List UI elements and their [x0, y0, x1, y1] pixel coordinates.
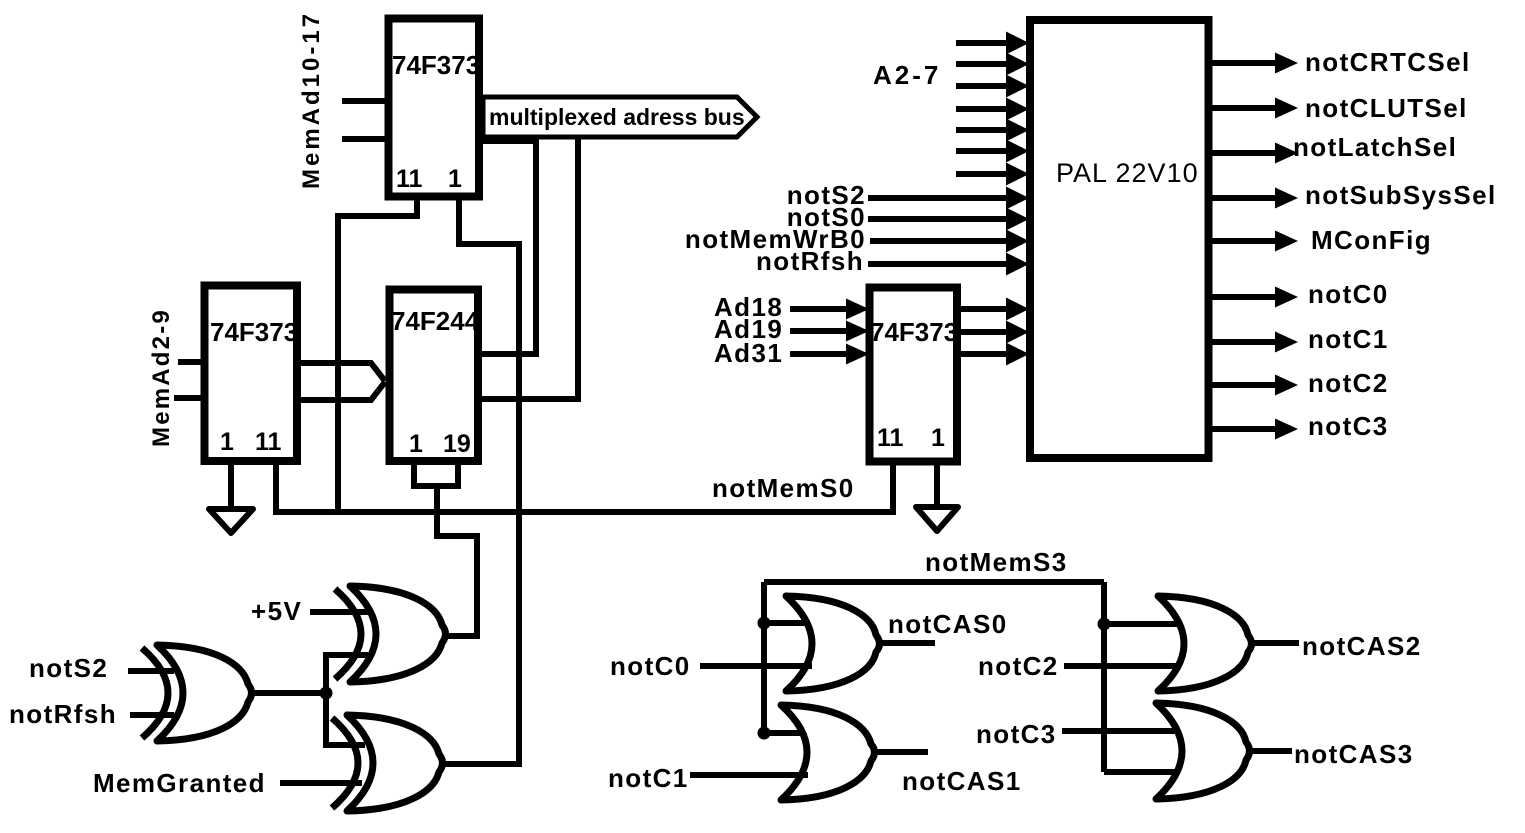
wire G5 top input stub	[764, 730, 808, 736]
wire notMemS0 net: U2 pin11 to U3 pin11	[276, 464, 893, 512]
wire notRfsh to PAL	[868, 253, 1029, 276]
svg-text:1: 1	[409, 430, 423, 458]
svg-text:1: 1	[448, 165, 462, 193]
junction dot J3	[758, 727, 771, 740]
wire PAL output notCLUTSel	[1208, 98, 1298, 119]
wire notRfsh input	[130, 712, 174, 718]
wire PAL output notLatchSel	[1208, 143, 1298, 164]
wire bus arrow U2 to U4	[301, 363, 385, 400]
wire U1 input stubs	[342, 101, 390, 139]
wire PAL output notC3	[1208, 419, 1298, 440]
latch U2 74F373 (MemAd2-9)	[205, 286, 299, 462]
svg-text:notC2: notC2	[978, 651, 1059, 681]
svg-text:PAL 22V10: PAL 22V10	[1056, 158, 1199, 188]
wire W3: U1 right edge to U4 output (x536 vertical)	[480, 141, 536, 354]
wire PAL output notC0	[1208, 287, 1298, 308]
wire U4 pins 1/19 strap	[414, 464, 458, 486]
or gate G4 (notCAS0)	[786, 596, 880, 691]
wire PAL output notC1	[1208, 332, 1298, 353]
svg-text:notC3: notC3	[1308, 411, 1389, 441]
wire Ad31 into U3	[790, 344, 869, 365]
latch U3 74F373 (Ad18/19/31)	[870, 288, 959, 462]
wire G6 top input stub	[1104, 621, 1184, 627]
svg-text:notCLUTSel: notCLUTSel	[1305, 93, 1468, 123]
wire notC3 input	[1062, 728, 1184, 734]
or gate G5 (notCAS1)	[781, 705, 875, 800]
svg-text:notC0: notC0	[1308, 279, 1389, 309]
wire PAL output notSubSysSel	[1208, 188, 1298, 209]
wire +5V input	[310, 609, 368, 615]
svg-text:notMemS0: notMemS0	[712, 473, 855, 503]
wire G7 output	[1251, 748, 1292, 754]
svg-text:notRfsh: notRfsh	[9, 699, 117, 729]
wire G5 output	[876, 749, 928, 755]
svg-text:Ad31: Ad31	[714, 338, 783, 368]
svg-text:notC1: notC1	[608, 763, 689, 793]
wire G7 bottom input stub	[1104, 769, 1182, 775]
svg-text:MemGranted: MemGranted	[93, 768, 266, 798]
wire notS0 to PAL	[868, 208, 1029, 231]
svg-text:1: 1	[220, 428, 234, 456]
PAL U5 22V10	[1030, 20, 1209, 458]
wire W4: banner bottom to U4 output (x578 vertical)	[481, 135, 578, 399]
or gate G6 (notCAS2)	[1158, 596, 1252, 691]
wire notS2 input	[128, 668, 174, 674]
svg-text:74F373: 74F373	[870, 317, 958, 347]
svg-text:notC0: notC0	[610, 651, 691, 681]
svg-text:notLatchSel: notLatchSel	[1293, 132, 1457, 162]
wire Ad18 into U3	[790, 299, 869, 320]
wire notMemWrB0 to PAL	[870, 230, 1029, 253]
wire junction vertical to G2/G3 inputs	[326, 655, 368, 745]
xor gate G1 (notS2/notRfsh)	[142, 645, 252, 741]
latch U1 74F373 (MemAd10-17)	[389, 19, 481, 197]
svg-text:A2-7: A2-7	[873, 60, 941, 90]
wire Ad19 into U3	[790, 321, 869, 342]
wire U4 strap down to gate G2 output	[437, 486, 477, 636]
or gate G7 (notCAS3)	[1156, 703, 1250, 799]
wire G4 output	[881, 640, 935, 646]
svg-text:notCAS3: notCAS3	[1294, 739, 1414, 769]
wire U3 outputs into PAL	[957, 298, 1029, 366]
svg-text:notCAS2: notCAS2	[1302, 631, 1422, 661]
wire notC1 input	[690, 772, 808, 778]
svg-text:notSubSysSel: notSubSysSel	[1305, 180, 1497, 210]
svg-text:19: 19	[443, 430, 471, 458]
svg-text:multiplexed adress bus: multiplexed adress bus	[489, 104, 745, 130]
xor gate G3 (MemGranted)	[332, 715, 443, 811]
svg-text:notMemS3: notMemS3	[925, 547, 1068, 577]
svg-text:74F373: 74F373	[392, 50, 480, 80]
junction dot J4	[1098, 618, 1111, 631]
svg-text:74F373: 74F373	[210, 317, 298, 347]
wire G6 output	[1253, 640, 1299, 646]
svg-text:1: 1	[931, 424, 945, 452]
junction dot J1	[320, 687, 333, 700]
wire notC0 input	[700, 663, 812, 669]
svg-text:notCAS1: notCAS1	[902, 766, 1022, 796]
wire G1 output to junction	[253, 690, 326, 696]
svg-text:notCRTCSel: notCRTCSel	[1305, 47, 1471, 77]
wire G4 top input stub	[764, 620, 812, 626]
wire MemGranted input	[280, 780, 362, 786]
wire notC2 input	[1064, 663, 1184, 669]
xor gate G2 (+5V)	[335, 586, 446, 682]
svg-text:notC2: notC2	[1308, 368, 1389, 398]
junction dot J2	[758, 617, 771, 630]
wire PAL output MConFig	[1208, 231, 1298, 252]
ground GND2 under U3 pin1	[916, 465, 958, 531]
svg-text:notCAS0: notCAS0	[888, 609, 1008, 639]
svg-text:MemAd10-17: MemAd10-17	[298, 11, 325, 189]
svg-text:11: 11	[877, 424, 904, 452]
svg-text:notC1: notC1	[1308, 324, 1389, 354]
wire W6: U1 pin1 right and down to gate G3 output	[445, 199, 519, 764]
buffer U4 74F244	[390, 290, 480, 462]
wire PAL output notC2	[1208, 375, 1298, 396]
bus banner: multiplexed adress bus	[483, 97, 757, 137]
svg-text:notC3: notC3	[976, 719, 1057, 749]
svg-text:74F244: 74F244	[391, 306, 480, 336]
wire notMemS3 right vertical	[1101, 582, 1107, 772]
svg-text:MConFig: MConFig	[1311, 225, 1432, 255]
wire U2 input stubs	[174, 362, 206, 398]
wire notMemS3 net horizontal	[764, 579, 1104, 585]
svg-text:11: 11	[396, 165, 423, 193]
svg-text:notS2: notS2	[29, 653, 108, 683]
svg-text:11: 11	[255, 428, 282, 456]
svg-text:notRfsh: notRfsh	[756, 246, 864, 276]
wire notS2 to PAL	[868, 187, 1029, 210]
wire A2-7 input lines with arrowheads into PAL	[956, 32, 1029, 186]
svg-text:+5V: +5V	[251, 596, 302, 626]
wire PAL output notCRTCSel	[1208, 53, 1298, 74]
ground GND1 under U2 pin1	[209, 464, 253, 533]
svg-text:MemAd2-9: MemAd2-9	[148, 308, 175, 447]
wire notMemS3 left vertical	[761, 582, 767, 733]
wire W5: U1 pin11 down-left-down to notMemS0 net	[338, 199, 417, 512]
